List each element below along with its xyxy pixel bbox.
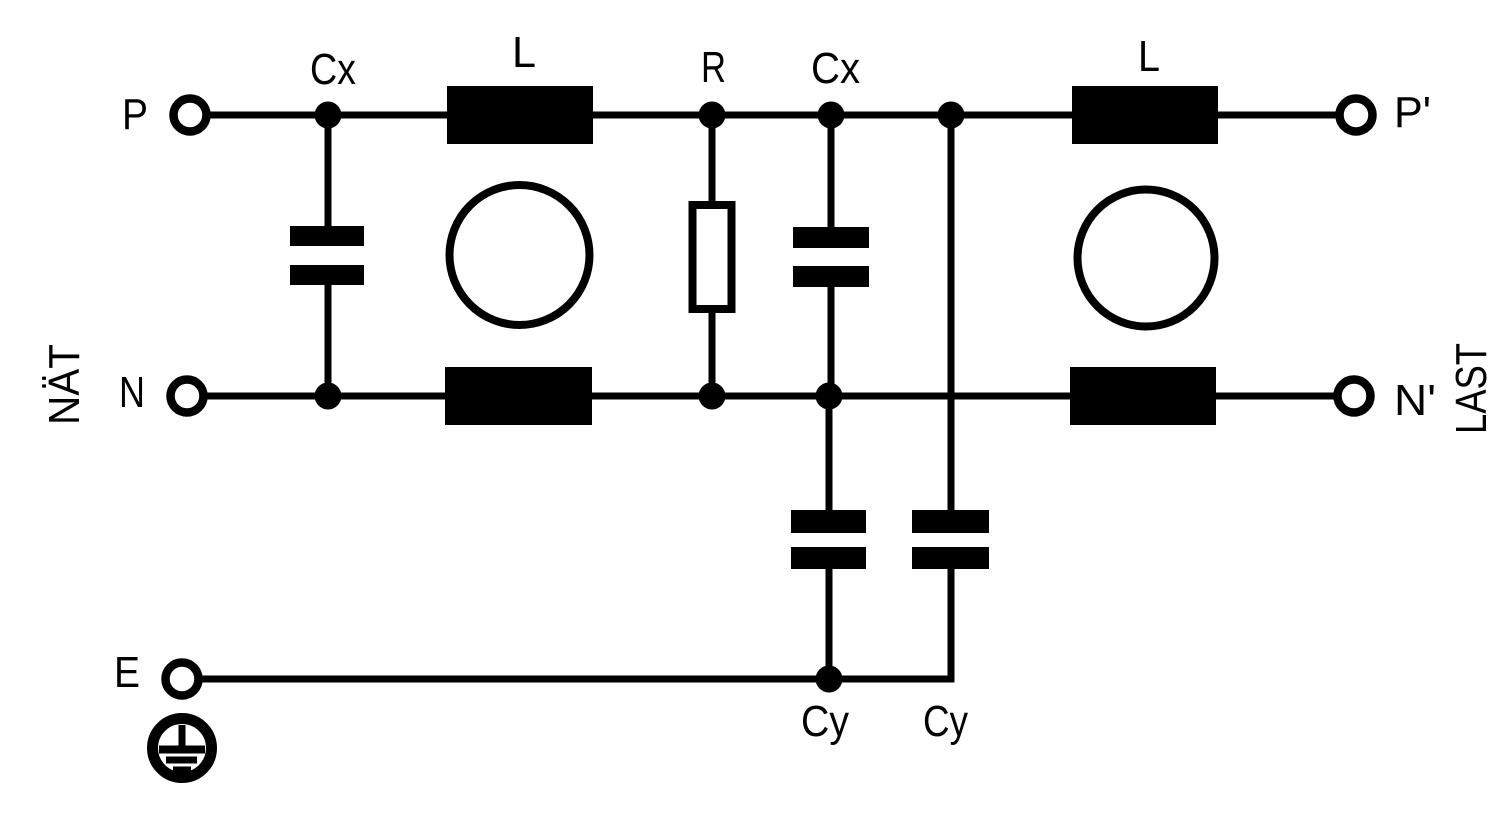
wire R column	[709, 115, 716, 396]
junction node Cx1-P	[315, 102, 342, 129]
svg-text:Cy: Cy	[923, 697, 968, 746]
toroid core 2	[1078, 190, 1215, 327]
inductor L1 (top left winding)	[447, 86, 593, 144]
wire Cy2 column (crosses N rail, no junction)	[948, 115, 955, 683]
svg-text:Cx: Cx	[310, 45, 356, 94]
junction node R-N	[699, 383, 726, 410]
resistor R	[693, 205, 732, 309]
inductor L3 (bottom left winding)	[445, 367, 592, 425]
capacitor Cx2	[793, 227, 869, 287]
wire Cx2 column	[828, 115, 835, 396]
ground (protective earth symbol)	[153, 719, 212, 778]
terminal N'	[1338, 380, 1371, 413]
svg-text:Cy: Cy	[801, 697, 849, 746]
inductor L4 (bottom right winding)	[1070, 367, 1216, 425]
wire E line (earth rail)	[202, 676, 951, 683]
capacitor Cy1	[791, 510, 866, 569]
junction node Cx2-P	[818, 102, 845, 129]
terminal E	[166, 663, 199, 696]
wire N line (neutral bottom rail)	[207, 393, 1334, 400]
terminal P	[174, 99, 207, 132]
capacitor Cx1	[290, 226, 364, 285]
svg-text:E: E	[114, 648, 140, 697]
toroid core 1	[450, 185, 590, 325]
terminal P'	[1340, 99, 1373, 132]
wire Cy1 column	[826, 396, 833, 679]
wire P line (phase top rail)	[210, 112, 1336, 119]
inductor L2 (top right winding)	[1072, 86, 1218, 144]
svg-text:P: P	[122, 90, 148, 139]
wire Cx1 column	[325, 115, 332, 396]
svg-text:L: L	[1138, 32, 1160, 81]
capacitor Cy2	[912, 510, 989, 569]
svg-text:N': N'	[1394, 376, 1436, 425]
svg-text:N: N	[119, 368, 145, 417]
junction node Cy2-P	[938, 102, 965, 129]
svg-text:Cx: Cx	[811, 44, 860, 93]
svg-text:L: L	[512, 28, 536, 77]
junction node Cx2/Cy1-N	[816, 383, 843, 410]
svg-text:NÄT: NÄT	[40, 344, 89, 425]
junction node Cy1-E	[816, 666, 843, 693]
svg-text:LAST: LAST	[1447, 343, 1496, 434]
terminal N	[171, 380, 204, 413]
svg-text:P': P'	[1394, 88, 1431, 137]
junction node R-P	[699, 102, 726, 129]
junction node Cx1-N	[315, 383, 342, 410]
svg-text:R: R	[701, 43, 726, 92]
